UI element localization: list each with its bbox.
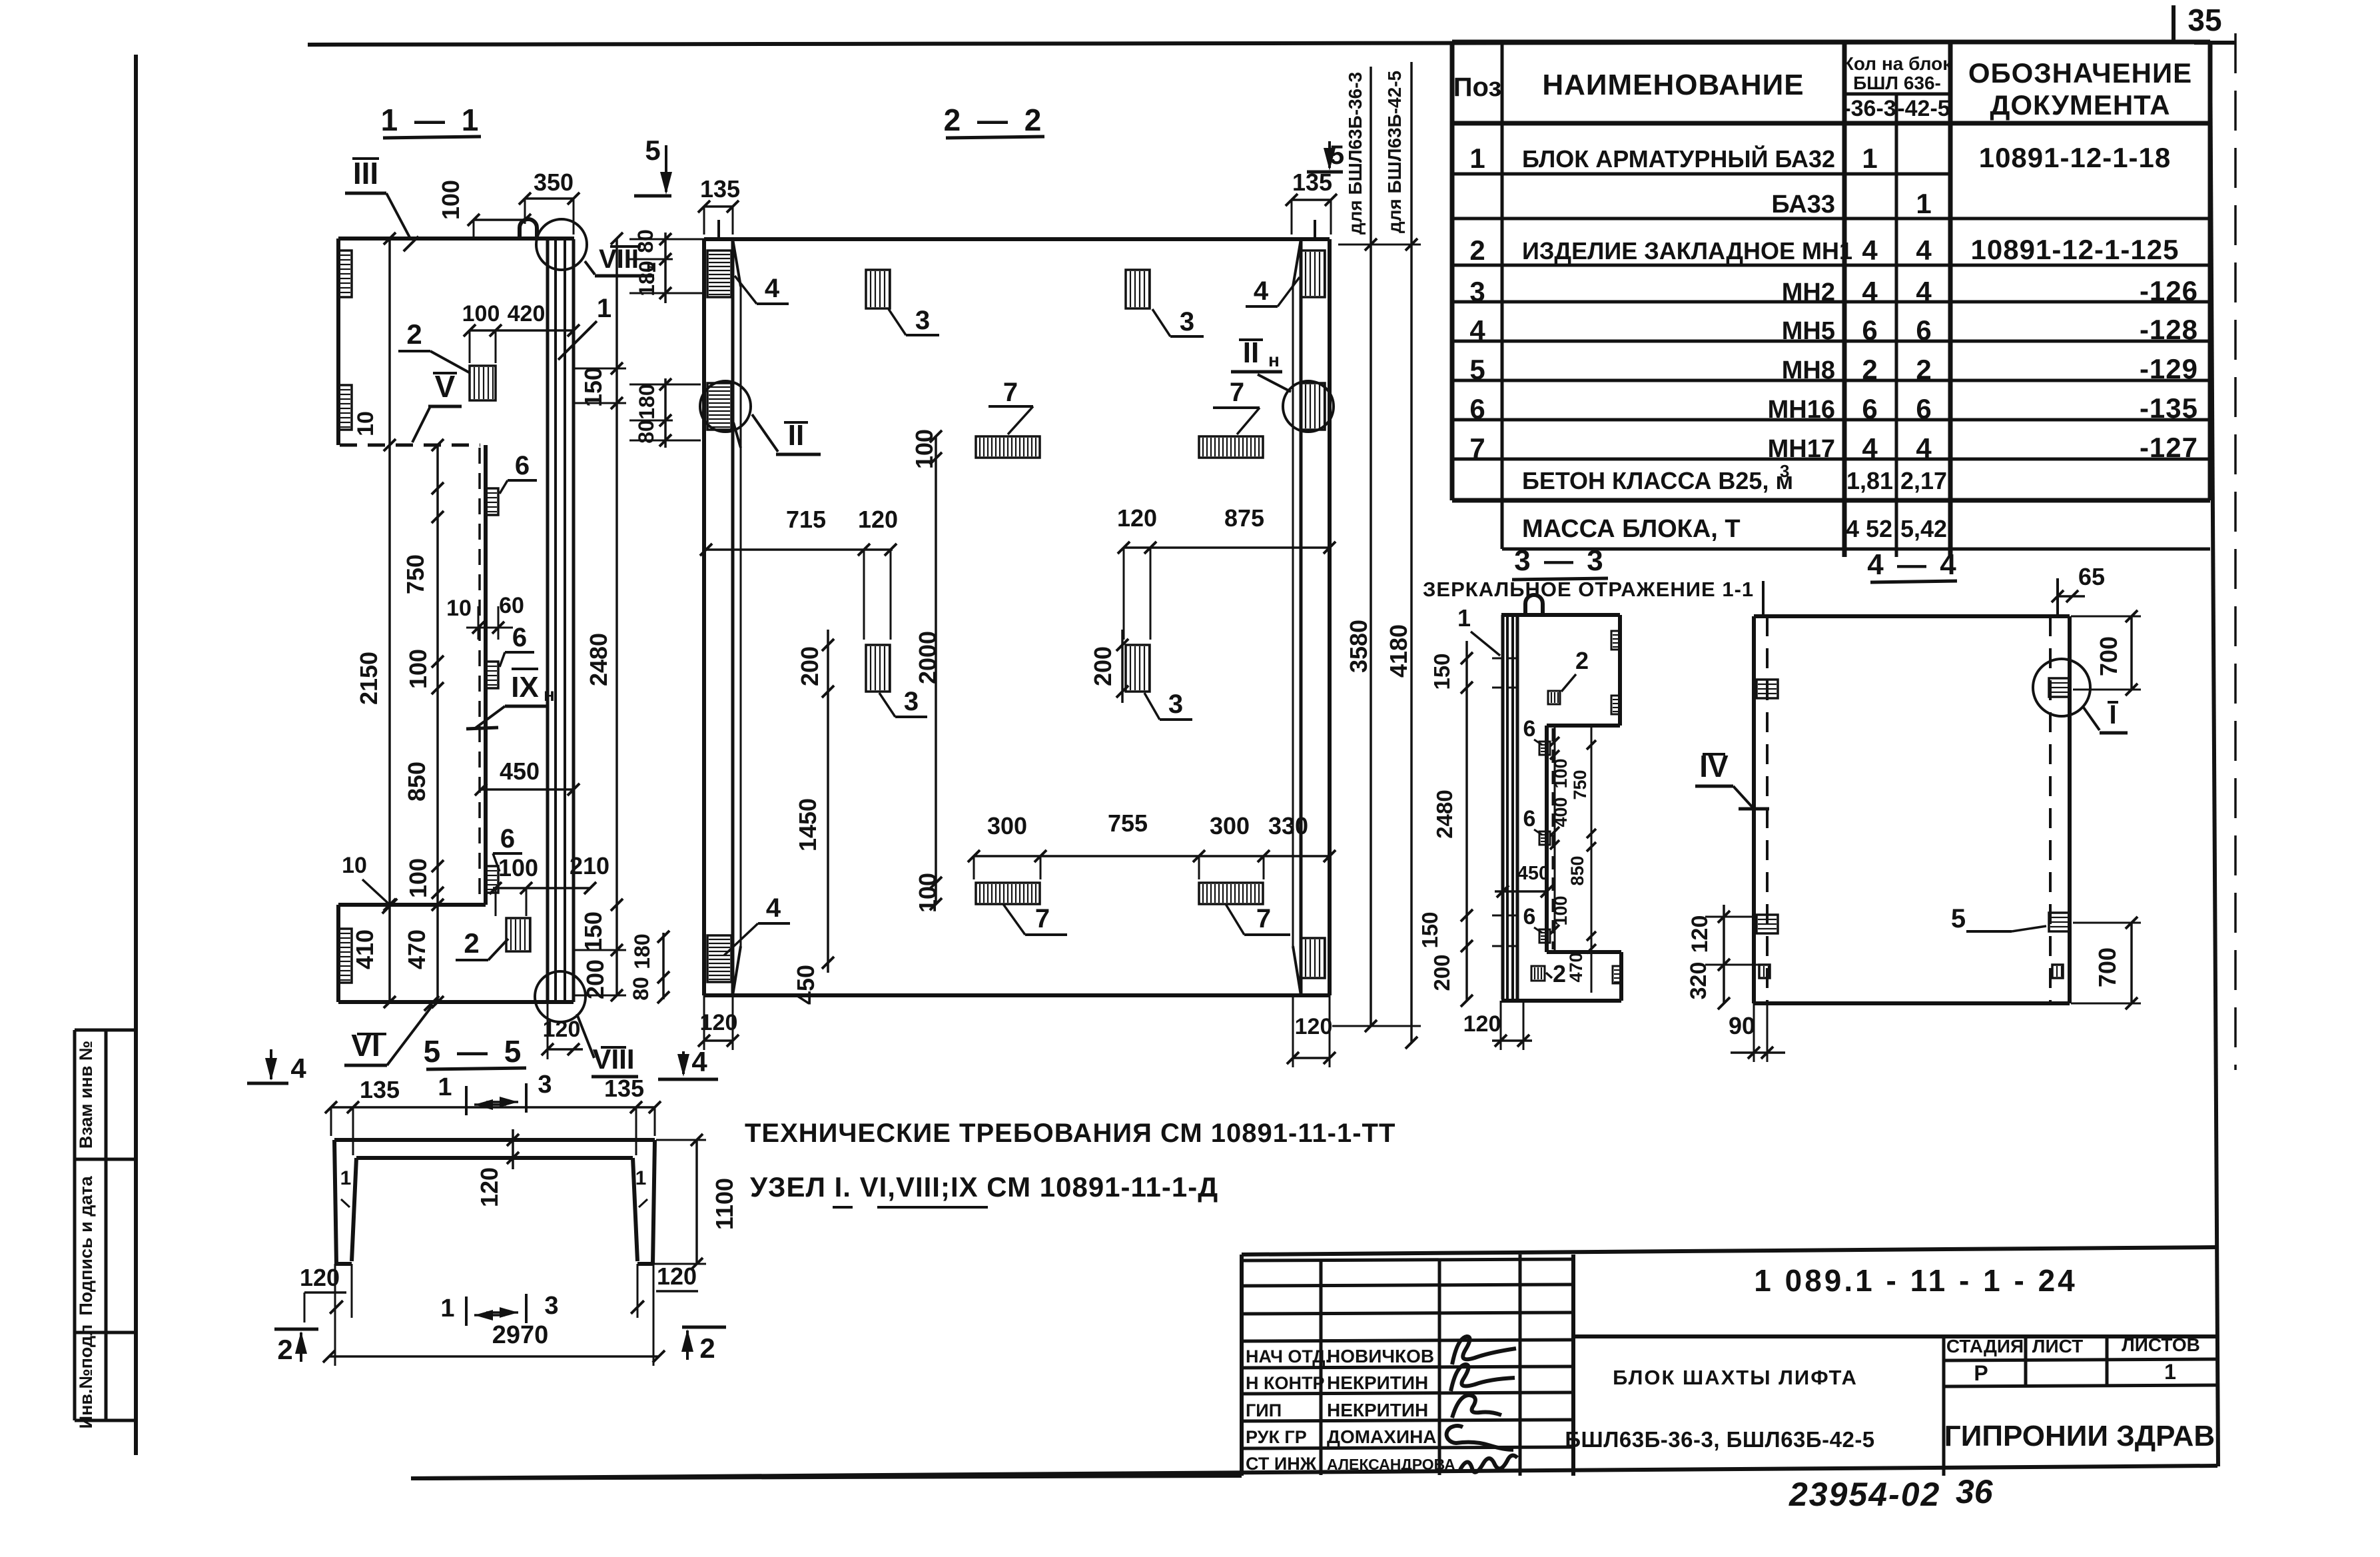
- svg-text:ГИПРОНИИ ЗДРАВ: ГИПРОНИИ ЗДРАВ: [1944, 1420, 2215, 1452]
- svg-text:1: 1: [2164, 1360, 2176, 1384]
- svg-text:1: 1: [1916, 188, 1931, 219]
- svg-text:2480: 2480: [1432, 789, 1457, 838]
- svg-text:80: 80: [633, 229, 657, 253]
- svg-text:120: 120: [476, 1167, 503, 1207]
- svg-text:750: 750: [1570, 770, 1590, 799]
- svg-text:1100: 1100: [711, 1178, 738, 1230]
- svg-text:ОБОЗНАЧЕНИЕ: ОБОЗНАЧЕНИЕ: [1968, 57, 2192, 89]
- svg-text:3 — 3: 3 — 3: [1514, 544, 1605, 577]
- svg-text:I: I: [2109, 700, 2116, 730]
- svg-text:БШЛ63Б-36-3, БШЛ63Б-42-5: БШЛ63Б-36-3, БШЛ63Б-42-5: [1565, 1427, 1874, 1452]
- svg-text:450: 450: [500, 758, 540, 785]
- svg-text:6: 6: [500, 824, 515, 853]
- svg-text:-127: -127: [2140, 432, 2198, 463]
- svg-text:3: 3: [904, 687, 919, 716]
- svg-text:Кол на блок: Кол на блок: [1842, 53, 1952, 74]
- svg-text:35: 35: [2187, 3, 2221, 37]
- svg-text:100: 100: [911, 429, 938, 469]
- svg-text:750: 750: [402, 554, 429, 594]
- svg-text:6: 6: [1523, 904, 1536, 929]
- svg-text:Взам инв №: Взам инв №: [76, 1041, 96, 1149]
- svg-text:470: 470: [1566, 952, 1586, 982]
- svg-text:н: н: [1268, 350, 1280, 370]
- svg-text:II: II: [1243, 336, 1259, 369]
- svg-text:4: 4: [691, 1046, 707, 1077]
- svg-text:1: 1: [1469, 143, 1485, 174]
- svg-text:1: 1: [597, 294, 611, 323]
- svg-text:120: 120: [1295, 1014, 1333, 1039]
- svg-text:2: 2: [1575, 647, 1589, 674]
- svg-text:СТ ИНЖ: СТ ИНЖ: [1246, 1454, 1317, 1474]
- svg-text:10: 10: [342, 853, 367, 878]
- svg-text:200: 200: [582, 959, 609, 999]
- svg-text:IV: IV: [1699, 749, 1729, 783]
- svg-text:4 — 4: 4 — 4: [1867, 548, 1958, 581]
- svg-text:4: 4: [1916, 235, 1932, 266]
- svg-text:850: 850: [1567, 855, 1587, 885]
- svg-text:БЛОК АРМАТУРНЫЙ БА32: БЛОК АРМАТУРНЫЙ БА32: [1522, 145, 1835, 173]
- svg-text:4 52: 4 52: [1846, 515, 1892, 542]
- svg-text:100: 100: [404, 858, 432, 898]
- svg-text:МН8: МН8: [1782, 356, 1835, 384]
- svg-text:6: 6: [1469, 393, 1485, 424]
- svg-text:135: 135: [700, 175, 740, 203]
- svg-text:II: II: [788, 419, 804, 452]
- svg-text:210: 210: [570, 852, 609, 879]
- svg-text:100: 100: [1551, 895, 1571, 925]
- svg-text:120: 120: [300, 1264, 340, 1291]
- svg-text:90: 90: [1729, 1012, 1755, 1039]
- svg-text:5,42: 5,42: [1900, 515, 1947, 542]
- svg-text:5 — 5: 5 — 5: [424, 1034, 526, 1069]
- svg-text:ЛИСТОВ: ЛИСТОВ: [2122, 1334, 2200, 1355]
- svg-text:80: 80: [629, 977, 653, 1001]
- svg-text:НЕКРИТИН: НЕКРИТИН: [1327, 1372, 1428, 1393]
- svg-text:300: 300: [987, 812, 1027, 839]
- svg-text:1: 1: [438, 1073, 452, 1101]
- svg-text:1 089.1 - 11 - 1 - 24: 1 089.1 - 11 - 1 - 24: [1754, 1263, 2078, 1298]
- svg-text:6: 6: [515, 451, 530, 480]
- svg-text:4: 4: [1862, 432, 1878, 464]
- svg-text:-129: -129: [2140, 353, 2198, 384]
- svg-text:700: 700: [2094, 947, 2121, 987]
- svg-text:III: III: [353, 156, 378, 191]
- svg-text:2: 2: [1553, 960, 1566, 987]
- svg-text:4: 4: [1254, 276, 1269, 306]
- svg-text:470: 470: [403, 929, 430, 969]
- svg-text:875: 875: [1224, 504, 1264, 532]
- svg-text:700: 700: [2095, 636, 2122, 676]
- svg-text:3: 3: [544, 1292, 558, 1320]
- svg-text:3: 3: [1180, 307, 1194, 336]
- svg-text:5: 5: [1951, 904, 1966, 933]
- svg-text:-42-5: -42-5: [1897, 96, 1950, 121]
- svg-text:2: 2: [699, 1332, 715, 1364]
- svg-text:1: 1: [1862, 143, 1877, 174]
- svg-text:МН2: МН2: [1782, 278, 1835, 306]
- svg-text:4: 4: [1469, 314, 1485, 346]
- svg-text:100: 100: [462, 301, 500, 326]
- svg-text:3: 3: [1780, 461, 1789, 481]
- svg-text:410: 410: [351, 929, 378, 969]
- svg-text:СТАДИЯ: СТАДИЯ: [1946, 1336, 2024, 1356]
- svg-text:3: 3: [1168, 690, 1183, 719]
- svg-text:7: 7: [1230, 378, 1244, 407]
- svg-text:450: 450: [1517, 863, 1549, 884]
- svg-text:6: 6: [1523, 716, 1536, 742]
- svg-text:400: 400: [1551, 797, 1571, 827]
- svg-text:755: 755: [1108, 809, 1148, 837]
- svg-text:Инв.№подл: Инв.№подл: [76, 1324, 96, 1429]
- svg-text:135: 135: [1292, 169, 1332, 196]
- svg-text:МН5: МН5: [1782, 317, 1835, 345]
- svg-text:10: 10: [446, 596, 472, 621]
- svg-text:ЗЕРКАЛЬНОЕ ОТРАЖЕНИЕ 1-1: ЗЕРКАЛЬНОЕ ОТРАЖЕНИЕ 1-1: [1423, 578, 1754, 601]
- svg-text:320: 320: [1686, 962, 1711, 1000]
- svg-text:150: 150: [1417, 911, 1442, 948]
- svg-text:РУК ГР: РУК ГР: [1246, 1427, 1307, 1447]
- svg-text:300: 300: [1210, 812, 1250, 839]
- svg-text:НАЧ ОТД.: НАЧ ОТД.: [1246, 1346, 1330, 1366]
- svg-text:120: 120: [858, 506, 898, 533]
- svg-text:2: 2: [1469, 235, 1485, 266]
- svg-text:60: 60: [499, 593, 524, 618]
- svg-text:150: 150: [580, 367, 607, 407]
- svg-text:н: н: [544, 684, 555, 705]
- svg-text:120: 120: [1463, 1011, 1501, 1037]
- svg-text:5: 5: [1469, 354, 1485, 385]
- svg-text:200: 200: [1429, 954, 1454, 991]
- svg-text:4: 4: [765, 274, 780, 303]
- svg-text:1 — 1: 1 — 1: [381, 103, 483, 137]
- svg-text:-135: -135: [2140, 392, 2198, 424]
- svg-text:-128: -128: [2140, 314, 2198, 345]
- svg-text:6: 6: [1862, 314, 1877, 346]
- svg-text:2: 2: [1862, 354, 1877, 385]
- svg-text:НЕКРИТИН: НЕКРИТИН: [1327, 1400, 1428, 1420]
- svg-text:3: 3: [1469, 276, 1485, 307]
- svg-text:Поз: Поз: [1453, 73, 1502, 102]
- svg-text:10891-12-1-125: 10891-12-1-125: [1971, 234, 2180, 265]
- svg-text:100: 100: [498, 854, 538, 881]
- svg-text:4: 4: [1862, 276, 1878, 307]
- svg-text:7: 7: [1003, 378, 1018, 407]
- svg-text:БА33: БА33: [1771, 191, 1835, 219]
- svg-text:2970: 2970: [492, 1321, 549, 1349]
- svg-text:80: 80: [634, 420, 658, 444]
- svg-text:2: 2: [1916, 354, 1931, 385]
- svg-text:МАССА БЛОКА, Т: МАССА БЛОКА, Т: [1522, 515, 1741, 543]
- svg-text:ЛИСТ: ЛИСТ: [2032, 1336, 2083, 1356]
- svg-text:6: 6: [1862, 393, 1877, 424]
- svg-text:4: 4: [290, 1053, 306, 1084]
- svg-text:2: 2: [464, 927, 479, 959]
- svg-text:100: 100: [404, 649, 432, 689]
- svg-text:2: 2: [406, 318, 422, 350]
- svg-text:НАИМЕНОВАНИЕ: НАИМЕНОВАНИЕ: [1542, 69, 1804, 101]
- svg-text:100: 100: [437, 180, 464, 220]
- svg-text:АЛЕКСАНДРОВА: АЛЕКСАНДРОВА: [1327, 1456, 1455, 1473]
- svg-text:IX: IX: [511, 671, 539, 704]
- svg-text:200: 200: [796, 646, 823, 686]
- svg-text:6: 6: [512, 623, 527, 652]
- svg-text:1450: 1450: [794, 798, 821, 851]
- svg-text:-126: -126: [2140, 275, 2198, 306]
- svg-text:для БШЛ63Б-36-3: для БШЛ63Б-36-3: [1345, 72, 1366, 235]
- svg-text:135: 135: [360, 1076, 400, 1103]
- svg-text:2 — 2: 2 — 2: [944, 103, 1046, 137]
- svg-text:2150: 2150: [355, 652, 382, 705]
- svg-text:БЛОК ШАХТЫ ЛИФТА: БЛОК ШАХТЫ ЛИФТА: [1613, 1366, 1858, 1389]
- svg-text:4: 4: [1916, 276, 1932, 307]
- svg-text:450: 450: [792, 965, 819, 1005]
- svg-text:65: 65: [2078, 563, 2105, 590]
- svg-text:ДОМАХИНА: ДОМАХИНА: [1327, 1426, 1437, 1447]
- svg-text:1: 1: [1457, 604, 1471, 632]
- svg-text:4: 4: [766, 893, 781, 923]
- svg-text:100: 100: [1551, 758, 1571, 788]
- svg-text:180: 180: [635, 384, 659, 419]
- svg-text:ГИП: ГИП: [1246, 1400, 1282, 1420]
- svg-text:Н КОНТР: Н КОНТР: [1246, 1373, 1324, 1393]
- svg-text:2,17: 2,17: [1900, 467, 1947, 494]
- svg-text:2000: 2000: [914, 631, 941, 684]
- svg-text:850: 850: [403, 762, 430, 801]
- svg-text:4: 4: [1916, 432, 1932, 464]
- svg-text:7: 7: [1035, 904, 1050, 933]
- svg-text:180: 180: [630, 933, 654, 969]
- svg-text:1: 1: [440, 1295, 454, 1322]
- svg-text:7: 7: [1256, 904, 1271, 933]
- svg-text:715: 715: [786, 506, 826, 533]
- svg-text:6: 6: [1523, 806, 1536, 831]
- svg-text:120: 120: [657, 1263, 697, 1290]
- svg-text:420: 420: [508, 301, 546, 326]
- svg-text:135: 135: [604, 1075, 644, 1102]
- svg-text:6: 6: [1916, 314, 1931, 346]
- svg-text:150: 150: [1429, 653, 1454, 690]
- svg-text:для БШЛ63Б-42-5: для БШЛ63Б-42-5: [1384, 71, 1405, 233]
- svg-text:330: 330: [1268, 812, 1308, 839]
- svg-text:МН16: МН16: [1768, 396, 1835, 424]
- svg-text:НОВИЧКОВ: НОВИЧКОВ: [1327, 1346, 1434, 1366]
- svg-text:36: 36: [1956, 1473, 1994, 1510]
- svg-text:ДОКУМЕНТА: ДОКУМЕНТА: [1990, 89, 2170, 121]
- svg-text:350: 350: [534, 169, 574, 196]
- svg-text:4180: 4180: [1385, 624, 1412, 678]
- svg-text:1: 1: [635, 1167, 647, 1189]
- svg-text:120: 120: [1687, 915, 1713, 953]
- svg-text:23954-02: 23954-02: [1788, 1476, 1940, 1513]
- svg-text:100: 100: [914, 873, 941, 913]
- svg-text:ИЗДЕЛИЕ ЗАКЛАДНОЕ МН1: ИЗДЕЛИЕ ЗАКЛАДНОЕ МН1: [1522, 237, 1852, 264]
- svg-text:150: 150: [580, 911, 607, 951]
- svg-text:ТЕХНИЧЕСКИЕ ТРЕБОВАНИЯ СМ 10: ТЕХНИЧЕСКИЕ ТРЕБОВАНИЯ СМ 10891-11-1-ТТ: [745, 1119, 1395, 1148]
- svg-text:-36-3: -36-3: [1843, 96, 1896, 121]
- svg-text:УЗЕЛ I. VI,VIII;IX СМ 10891-: УЗЕЛ I. VI,VIII;IX СМ 10891-11-1-Д: [750, 1171, 1218, 1203]
- svg-text:МН17: МН17: [1768, 435, 1835, 463]
- svg-text:6: 6: [1916, 393, 1931, 424]
- svg-text:7: 7: [1469, 432, 1485, 464]
- svg-text:2: 2: [277, 1334, 292, 1365]
- svg-text:180: 180: [635, 260, 659, 296]
- svg-text:1,81: 1,81: [1846, 467, 1893, 494]
- svg-text:10: 10: [353, 411, 378, 436]
- svg-text:БЕТОН КЛАССА В25, м: БЕТОН КЛАССА В25, м: [1522, 467, 1793, 494]
- svg-text:120: 120: [1117, 504, 1157, 532]
- svg-text:3: 3: [915, 306, 930, 335]
- svg-text:3: 3: [538, 1071, 552, 1099]
- svg-text:БШЛ 636-: БШЛ 636-: [1853, 73, 1941, 93]
- svg-text:200: 200: [1089, 646, 1116, 686]
- svg-text:10891-12-1-18: 10891-12-1-18: [1979, 142, 2172, 173]
- svg-text:1: 1: [340, 1167, 352, 1189]
- svg-text:3580: 3580: [1345, 620, 1372, 673]
- svg-text:Р: Р: [1974, 1361, 1988, 1385]
- svg-text:5: 5: [645, 135, 660, 166]
- svg-text:2480: 2480: [585, 633, 612, 686]
- svg-text:Подпись и дата: Подпись и дата: [76, 1175, 96, 1315]
- svg-text:4: 4: [1862, 235, 1878, 266]
